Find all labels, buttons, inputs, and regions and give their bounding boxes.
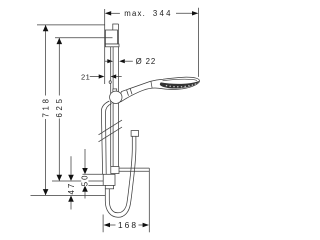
svg-text:168: 168 (118, 220, 138, 230)
shower head tip reference line (198, 8, 200, 77)
dimension max. 344 left arrow (105, 11, 111, 15)
dimension diameter 22 left arrow tail (105, 60, 108, 62)
wall bar tube right edge (118, 24, 120, 167)
wall bracket (105, 30, 117, 44)
dimension 625 line (58, 38, 60, 96)
dimension 47 lower arrow (68, 196, 74, 202)
dimension max. 344 line (111, 12, 120, 14)
hose loop inner edge (109, 136, 132, 213)
dimension 718 line (45, 25, 47, 96)
nozzle dots (166, 83, 196, 87)
dimension 168 right arrow (143, 223, 149, 227)
svg-text:21: 21 (81, 73, 90, 82)
svg-text:Ø 22: Ø 22 (136, 57, 157, 66)
wall bar top cap (112, 23, 118, 25)
extension line bottom (718/47) (31, 194, 106, 196)
hose upper inner edge (106, 103, 112, 174)
wall bar tube left edge (112, 47, 114, 167)
dimension 168 line (110, 224, 116, 226)
break mark diagonal 2 (99, 127, 123, 142)
svg-text:max.: max. (124, 9, 146, 18)
hose loop outer edge (105, 136, 136, 217)
hand shower neck joint line (151, 81, 152, 88)
dimension 50 lower arrow tail (84, 192, 86, 199)
dimension 168 extension line left (102, 215, 104, 233)
wall bar bottom cap (111, 167, 119, 174)
dimension 21 right arrow (111, 74, 117, 78)
dimension 50 upper arrow (82, 168, 88, 174)
dimension 718 top arrow (43, 25, 49, 31)
dimension 21 left arrow tail (90, 76, 99, 78)
svg-text:625: 625 (55, 96, 64, 117)
dimension diameter 22 right arrow (119, 59, 125, 63)
label 718 (rotated) (41, 96, 50, 118)
hand shower grip band line 1 (127, 90, 129, 96)
dimension 50 lower arrow (82, 186, 88, 192)
label 168 (117, 220, 139, 230)
hand shower handle and head silhouette (120, 77, 199, 102)
label 50 (rotated) (81, 174, 90, 187)
dimension diameter 22 left arrow (107, 59, 113, 63)
extension line hose connector mid (625/47) (52, 180, 103, 182)
slider release button (109, 81, 111, 84)
dimension 21 left arrow (99, 74, 105, 78)
spray nozzle band (160, 81, 199, 89)
hose connector block (103, 174, 115, 185)
dimension 47 upper arrow line (70, 156, 72, 174)
wall bar tube above bracket (112, 24, 114, 30)
svg-text:47: 47 (67, 182, 76, 195)
dimension 47 upper arrow (68, 175, 74, 181)
dimension 718 bottom arrow (43, 189, 49, 195)
label 625 (rotated) (55, 96, 64, 118)
svg-text:50: 50 (81, 174, 90, 187)
break mark diagonal 1 (99, 120, 123, 135)
label 47 (rotated) (67, 182, 76, 195)
dimension diameter 22 right arrow tail (124, 60, 132, 62)
dimension 168 extension line right (148, 168, 150, 232)
dimension 168 left arrow (104, 223, 110, 227)
bottom outlet pipe (119, 167, 149, 169)
dimension 21 right arrow tail (116, 76, 122, 78)
dimension 47 lower arrow tail (70, 202, 72, 210)
dimension 625 bottom arrow (57, 175, 63, 181)
hose end nut (131, 131, 139, 137)
extension line top of bar (718) (37, 24, 105, 26)
wall reference line (104, 9, 106, 84)
slider clamp stub (113, 89, 117, 93)
extension line 50 bottom (83, 184, 104, 186)
dimension 50 upper arrow line (84, 149, 86, 168)
dimension 625 top arrow (57, 38, 63, 44)
extension line bracket center (625) (55, 37, 113, 39)
slider knob (110, 91, 122, 103)
hose connector collar (105, 185, 113, 188)
wall bracket lower step (105, 44, 119, 47)
wall bar slide rail line (110, 47, 112, 167)
spray face inner rim line (163, 79, 198, 81)
dimension max. 344 right arrow (192, 11, 198, 15)
hand shower grip band line 2 (130, 89, 132, 95)
hose upper outer edge (101, 101, 109, 174)
svg-text:718: 718 (41, 96, 50, 117)
extension line 50 top (83, 173, 104, 175)
svg-text:344: 344 (153, 9, 173, 18)
